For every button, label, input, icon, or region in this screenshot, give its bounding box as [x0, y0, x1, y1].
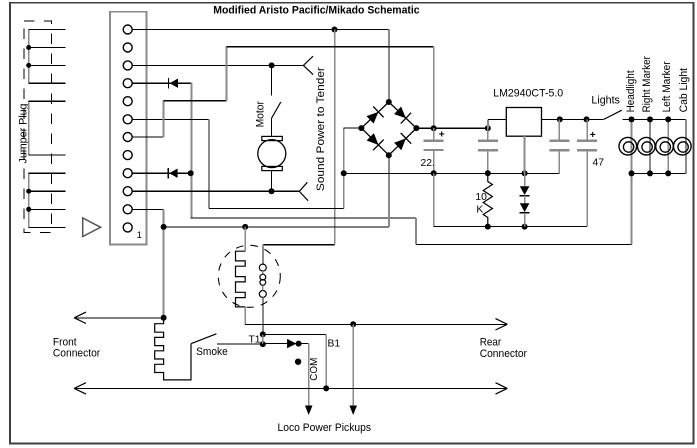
node regulator ground: [522, 170, 528, 176]
jumper bus 2 (rows 5-8): [28, 101, 30, 155]
connector pin 9 circle: [123, 79, 132, 88]
svg-text:COM: COM: [309, 358, 320, 381]
wire COM vertical: [308, 344, 310, 407]
sound plug bottom contact: [299, 182, 308, 200]
node motor branch: [269, 62, 275, 68]
svg-text:T1: T1: [249, 335, 261, 346]
regulator U1 LM2940 box: [506, 108, 541, 137]
stray junction dot: [295, 359, 301, 365]
wire lights return vertical: [631, 173, 633, 244]
wire heater rail to rear: [245, 323, 506, 325]
motor M1 body: [258, 140, 286, 168]
node pin11 mid: [161, 224, 167, 230]
wire pin7 riser 2: [225, 47, 227, 101]
node T1 lower: [260, 341, 266, 347]
wire smoke lamp stub: [262, 245, 264, 264]
diode D2 triangle: [169, 169, 177, 178]
wire pin1 to bridge top: [132, 29, 389, 31]
wire smoke lamp feed horizontal: [263, 244, 335, 246]
wire smoke switch to T1: [217, 343, 263, 345]
svg-text:Smoke: Smoke: [196, 346, 228, 358]
triangle marker: [83, 218, 101, 237]
bridge node bottom: [386, 152, 392, 158]
lamp L2 symbol: [638, 137, 656, 155]
svg-text:K: K: [476, 204, 483, 215]
bridge node left: [358, 125, 364, 131]
diode D1 triangle: [170, 79, 178, 88]
svg-text:47: 47: [593, 158, 605, 169]
svg-text:22.: 22.: [421, 158, 435, 169]
lamp bottom rail node: [665, 170, 671, 176]
wire V1 horizontal: [209, 208, 344, 210]
ground rail: [344, 172, 560, 174]
node input cap bottom / 10K top: [485, 170, 491, 176]
svg-text:B1: B1: [328, 338, 341, 349]
node pickup branch: [350, 321, 356, 327]
diode D3 triangle: [287, 339, 296, 348]
jumper stub row 11: [29, 208, 66, 210]
resistor R1 10K: [483, 173, 492, 226]
bridge edge wire: [389, 102, 417, 128]
svg-text:Headlight: Headlight: [625, 70, 637, 112]
lamp L3 wire: [667, 119, 669, 173]
jumper bus 1 (rows 1-4): [28, 30, 30, 84]
node T1 upper: [260, 331, 266, 337]
sound plug top contact: [303, 56, 313, 74]
smoke lamp circle 1: [259, 264, 266, 271]
wire T1 link: [262, 334, 264, 344]
svg-text:10: 10: [475, 192, 487, 203]
smoke lamp circle 4: [259, 291, 266, 298]
wire bridge left node stub: [344, 127, 362, 129]
node pin1/smoke branch: [332, 27, 338, 33]
connector pin 4 circle: [123, 169, 132, 178]
lamp top rail: [623, 118, 687, 120]
lamp bottom rail: [632, 172, 687, 174]
lamp L4 wire: [685, 119, 687, 173]
capacitor C2 input: [487, 128, 489, 139]
capacitor C1 22uF: [433, 128, 435, 139]
front connector top arrowhead: [74, 312, 86, 323]
connector pin 11 circle: [123, 43, 132, 52]
diode D1 cathode bar: [168, 78, 170, 88]
lamp top rail node: [647, 116, 653, 122]
svg-text:+: +: [590, 130, 596, 141]
bridge diode bottom-right: [394, 138, 406, 150]
wire pin7 horizontal: [132, 136, 163, 138]
wire pin7 jog horizontal: [164, 100, 227, 102]
lamp L2 wire: [649, 119, 651, 173]
wire pin6 vertical V1: [208, 119, 210, 208]
bridge diode top-right: [394, 107, 406, 119]
jumper junction row2: [26, 45, 31, 50]
smoke switch blade: [191, 334, 216, 344]
svg-text:Motor: Motor: [254, 101, 266, 128]
wire lights return horizontal: [416, 243, 632, 245]
svg-text:1: 1: [137, 230, 142, 241]
svg-text:Loco Power Pickups: Loco Power Pickups: [278, 422, 372, 434]
wire smoke lamp to T1: [262, 298, 264, 335]
wire lamp gap1: [262, 271, 264, 274]
wire motor switch stub: [271, 65, 273, 95]
capacitor C4 47uF: [586, 119, 588, 139]
wire B1 vertical: [325, 334, 327, 388]
svg-text:Rear: Rear: [480, 336, 502, 348]
COM arrowhead: [305, 406, 313, 416]
svg-text:Left Marker: Left Marker: [661, 61, 673, 112]
jumper stub row 4: [29, 82, 66, 84]
capacitor C3 output: [558, 119, 560, 139]
wire smoke heater bottom: [244, 307, 246, 324]
node cap47 top: [584, 116, 590, 122]
connector pin 2 circle: [123, 205, 132, 214]
node cap22 top: [431, 125, 437, 131]
jumper junction row10: [26, 189, 31, 194]
wire bridge bottom vertical: [388, 155, 390, 227]
node B1 bottom: [323, 385, 329, 391]
wire regulator input: [488, 118, 507, 120]
lamp bottom rail node: [647, 170, 653, 176]
jumper bus 3 (rows 9-12): [28, 173, 30, 227]
front heater element: [155, 318, 191, 380]
lamp L3 symbol: [656, 137, 674, 155]
svg-text:Lights: Lights: [591, 95, 620, 107]
wire bridge minus vertical: [343, 128, 345, 209]
bridge diode top-left: [367, 112, 379, 124]
connector pin 3 circle: [123, 187, 132, 196]
wire smoke heater feed: [244, 227, 246, 251]
wire motor to pin10 line: [271, 171, 273, 192]
node motor bottom: [269, 188, 275, 194]
lamp top rail node: [629, 116, 635, 122]
node diode D3 cathode: [296, 341, 302, 347]
motor top brush: [262, 136, 283, 140]
connector pin 6 circle: [123, 133, 132, 142]
node cap22 bottom: [431, 170, 437, 176]
wire diode D1 vertical V2: [190, 83, 192, 218]
connector pin 1 circle: [123, 223, 132, 232]
wire plus rail jog: [487, 119, 489, 128]
connector pin 10 circle: [123, 61, 132, 70]
wire pin11 drop: [163, 209, 165, 317]
node 10K bottom: [485, 224, 491, 230]
bridge edge wire: [361, 102, 388, 128]
lights switch blade: [604, 110, 622, 119]
lamp L1 symbol: [619, 137, 637, 155]
pickup arrowhead: [349, 406, 357, 416]
jumper junction row3: [26, 63, 31, 68]
lamp top rail node: [665, 116, 671, 122]
node diode D2 to V2: [188, 170, 194, 176]
wire pin3 to sound plug: [132, 64, 303, 66]
wire V2 jog down: [415, 218, 417, 245]
svg-text:Connector: Connector: [480, 348, 528, 360]
wire cap22 to bottom rail: [433, 173, 435, 226]
lamp bottom rail node: [629, 170, 635, 176]
jumper stub row 5: [29, 100, 66, 102]
bridge node top: [386, 99, 392, 105]
svg-text:Modified Aristo Pacific/Mikado: Modified Aristo Pacific/Mikado Schematic: [213, 4, 419, 16]
LED D5: [524, 196, 526, 204]
smoke heater element: [236, 251, 246, 307]
wire bottom rail: [75, 387, 507, 389]
svg-text:+: +: [439, 129, 445, 140]
lamp L1 wire: [631, 119, 633, 173]
connector J1 body: [110, 12, 147, 245]
wire lamp gap2: [262, 285, 264, 290]
node input cap top: [485, 125, 491, 131]
LED D4: [524, 173, 526, 186]
wire pin7 riser: [163, 101, 165, 137]
wire regulator ground pin: [524, 136, 526, 173]
jumper plug dashed outline: [24, 21, 52, 232]
wire V2 horizontal: [191, 217, 416, 219]
wire switch to motor: [271, 119, 273, 137]
wire pin7 down to plus rail: [433, 47, 435, 129]
rear connector top arrowhead: [496, 319, 508, 330]
svg-text:Sound Power to Tender: Sound Power to Tender: [315, 67, 327, 191]
wire regulator output: [542, 118, 604, 120]
node LED bottom: [522, 224, 528, 230]
svg-text:Connector: Connector: [53, 348, 101, 360]
rear connector bottom arrowhead: [496, 383, 508, 394]
connector pin 5 circle: [123, 151, 132, 160]
jumper stub row 1: [29, 29, 66, 31]
smoke lamp circle 2: [260, 274, 266, 280]
wire pin10 to sound plug: [132, 190, 299, 192]
bridge diode bottom-left: [367, 133, 379, 145]
wire pin6 horizontal: [132, 118, 209, 120]
node smoke heater branch: [242, 224, 248, 230]
wire pin4 to diode: [132, 82, 191, 84]
smoke lamp circle 3: [260, 280, 266, 286]
motor bottom brush: [262, 166, 283, 170]
wire bridge top vertical: [388, 30, 390, 103]
connector pin 8 circle: [123, 97, 132, 106]
jumper stub row 8: [29, 154, 66, 156]
jumper stub row 2: [29, 47, 66, 49]
wire pin11 horizontal: [132, 208, 163, 210]
svg-text:Right Marker: Right Marker: [641, 56, 653, 113]
connector pin 7 circle: [123, 115, 132, 124]
front connector bottom arrowhead: [74, 383, 86, 394]
jumper stub row 9: [29, 172, 66, 174]
smoke unit dashed circle: [218, 245, 280, 307]
bridge edge wire: [361, 128, 388, 155]
lamp L4 symbol: [674, 137, 692, 155]
jumper stub row 10: [29, 190, 66, 192]
svg-text:Cab Light: Cab Light: [678, 68, 690, 112]
jumper stub row 3: [29, 64, 66, 66]
motor switch blade: [271, 102, 280, 119]
wire pin7 top horizontal: [226, 46, 433, 48]
wire T1 to B1 horizontal: [263, 333, 326, 335]
connector pin 12 circle: [123, 25, 132, 34]
bottom ground rail: [434, 226, 587, 228]
wire pickup vertical: [352, 324, 354, 406]
svg-text:Jumper Plug: Jumper Plug: [17, 104, 29, 164]
wire pin9 to diode: [132, 172, 191, 174]
node output cap top: [557, 116, 563, 122]
node front connector branch: [161, 315, 167, 321]
wire plus rail: [416, 127, 487, 129]
diode D2 cathode bar: [167, 168, 169, 178]
bridge edge wire: [389, 128, 417, 155]
jumper stub row 12: [29, 226, 66, 228]
node bridge minus on ground rail: [341, 170, 347, 176]
wire pin11 to bridge bottom: [164, 226, 389, 228]
bridge node right: [413, 125, 419, 131]
wire front connector top: [75, 317, 164, 319]
wire smoke lamp feed vertical: [334, 30, 336, 245]
jumper junction row11: [26, 207, 31, 212]
svg-text:LM2940CT-5.0: LM2940CT-5.0: [493, 87, 563, 99]
wire T1 to diode: [263, 343, 309, 345]
